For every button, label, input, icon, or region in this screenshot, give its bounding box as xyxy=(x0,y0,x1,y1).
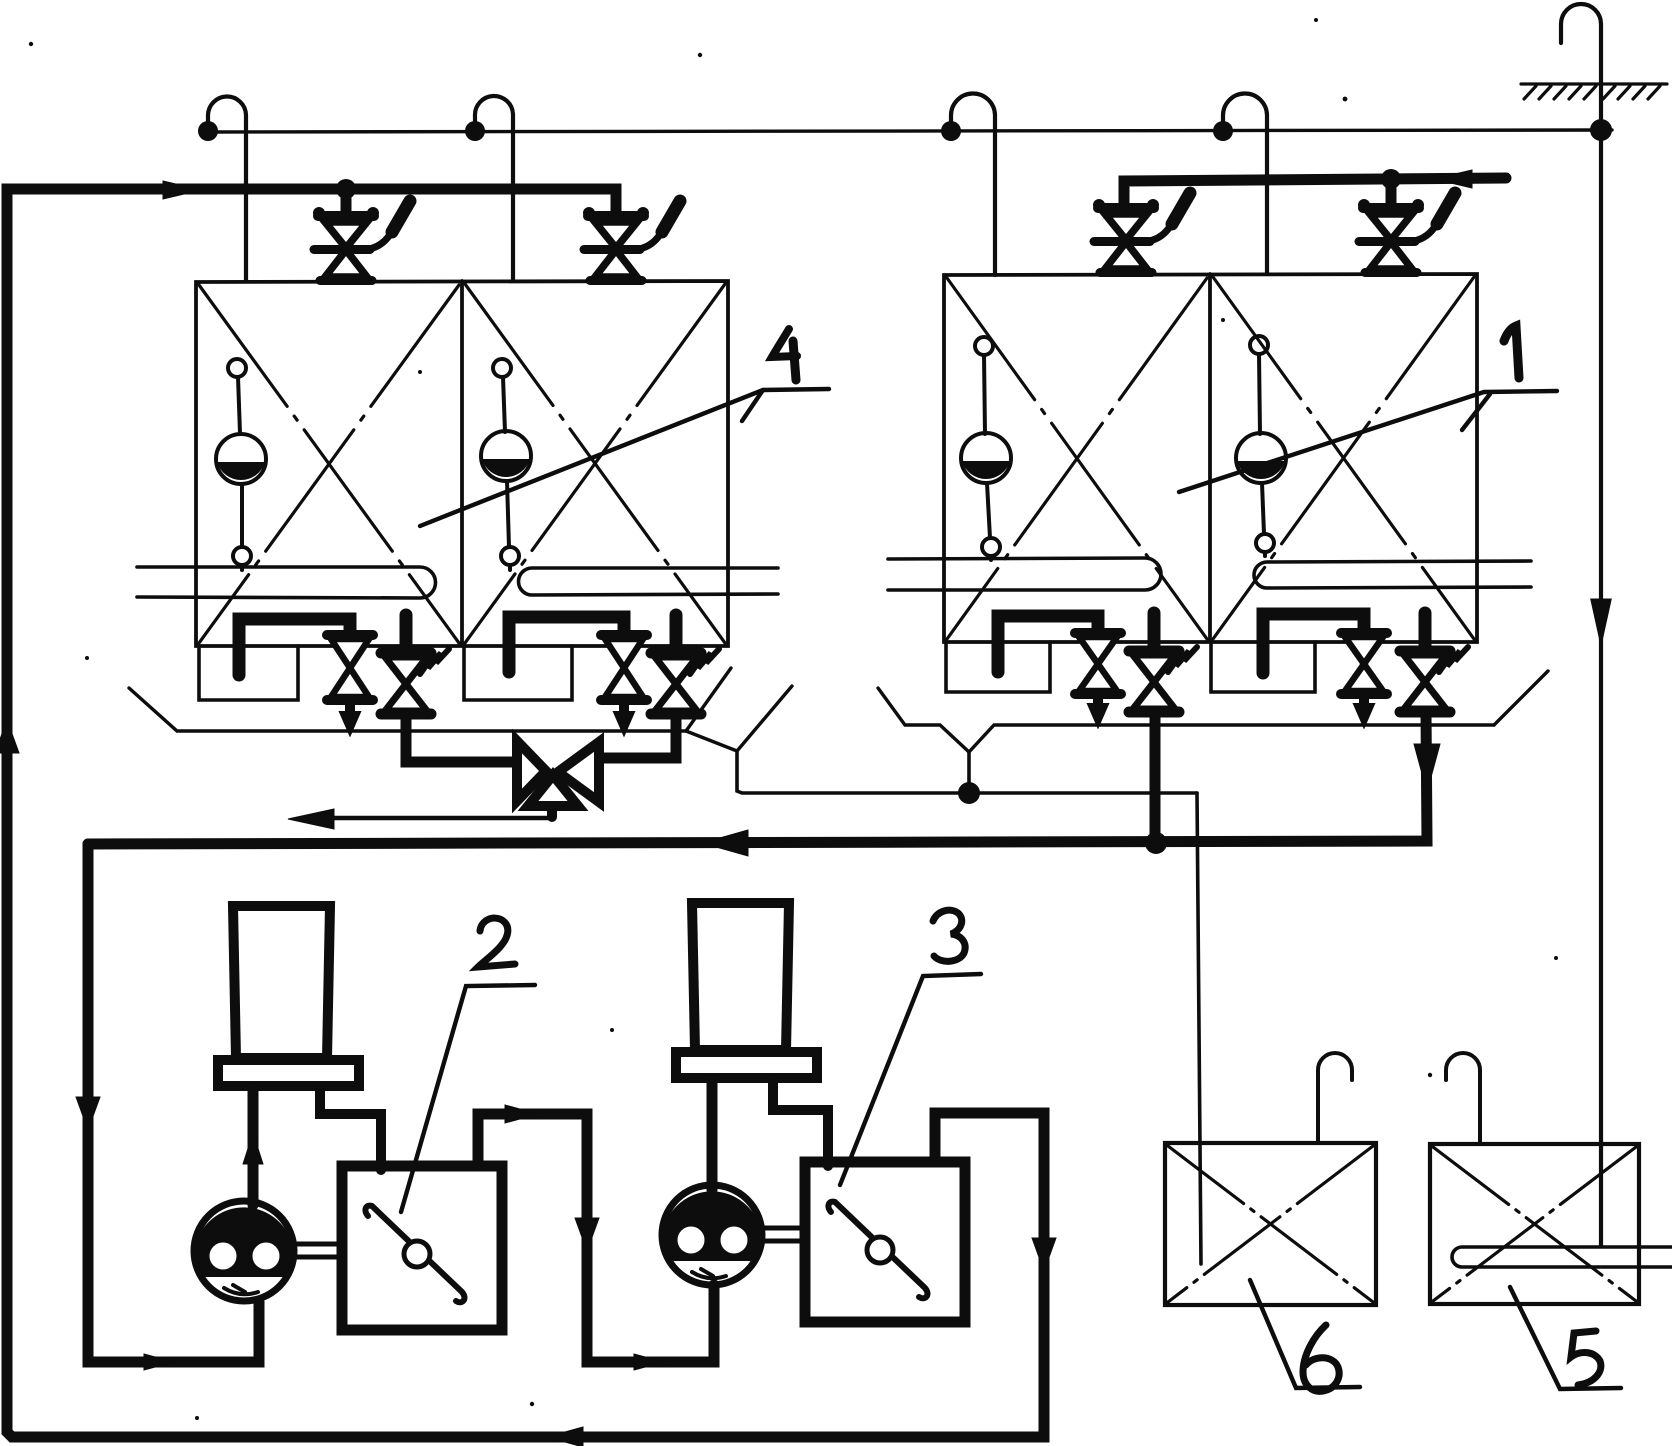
drain line down to box 6 xyxy=(1197,793,1201,1264)
sump under tank 4a xyxy=(199,646,298,700)
top valve V3 xyxy=(1093,193,1190,273)
junction dot valve V1 stem xyxy=(336,179,356,199)
arrow down on suction downcomer xyxy=(76,1097,100,1130)
label 2 numeral xyxy=(478,918,515,967)
suction pipe tank 1a with u-turn xyxy=(888,558,1161,590)
valve V4 stem xyxy=(1386,179,1397,210)
pump 2 shaft pipe xyxy=(248,1088,259,1205)
junction dot vent 2 xyxy=(465,121,485,141)
arrow up on riser xyxy=(0,720,19,753)
filter box 3 xyxy=(805,1162,965,1322)
top valve V1 xyxy=(313,201,410,281)
box 5 suction capsule pipe xyxy=(1452,1247,1672,1267)
arrow down on mast pipe xyxy=(1592,598,1610,641)
tank 1a outlet valve F (thick) xyxy=(1129,613,1179,712)
junction dot vent 3 xyxy=(941,121,961,141)
float gauge tank 4b xyxy=(481,359,531,570)
deck line with hatching xyxy=(1521,84,1667,99)
arrow down on filter 3 outlet xyxy=(1032,1238,1056,1271)
tank 1b outlet valve H (thick) xyxy=(1400,613,1450,712)
pump 3 discharge pipe to filter xyxy=(773,1080,828,1166)
drip tray group 1 xyxy=(878,671,1548,752)
coupling flange pump unit 3 xyxy=(676,1052,817,1078)
label 5 numeral xyxy=(1571,1331,1601,1385)
bottom supply line to riser xyxy=(7,194,1044,1437)
float gauge tank 1a xyxy=(961,337,1011,560)
junction dot valve F pipe on return xyxy=(1145,832,1167,854)
mast vent pipe top right xyxy=(1561,4,1601,129)
valve D outlet pipe to three-way valve xyxy=(604,714,676,758)
label 6 numeral xyxy=(1303,1325,1339,1391)
vent header pipe xyxy=(206,130,1612,132)
arrow right on filter 2 outlet xyxy=(505,1105,538,1123)
three-way valve xyxy=(517,741,599,806)
tank 4b diagonal chain lines xyxy=(465,284,725,643)
label 6 underline and leader xyxy=(1250,1280,1360,1388)
suction J-pipe tank 4b xyxy=(509,617,624,672)
arrow down on filter 2 outlet xyxy=(575,1218,599,1251)
drip tray group 4 xyxy=(129,668,792,751)
filter box 2 xyxy=(342,1166,502,1330)
pump 3 to filter 3 pipe xyxy=(762,1228,805,1241)
arrow left on bottom supply line xyxy=(547,1427,583,1446)
coupling flange pump unit 2 xyxy=(218,1060,359,1086)
tank group 4 outline xyxy=(196,281,728,646)
suction J-pipe tank 1b xyxy=(1263,614,1364,673)
label 1 underline and leaders xyxy=(1179,391,1557,492)
drip tray group 1 drain stub xyxy=(967,752,971,793)
float gauge tank 4a xyxy=(216,359,266,570)
tank 4b outlet valve D (thick) xyxy=(651,615,701,714)
label 5 underline and leader xyxy=(1510,1287,1621,1389)
tank 1a diagonal chain lines xyxy=(947,278,1207,639)
label 3 numeral xyxy=(933,910,965,961)
arrow right on pump 3 suction run xyxy=(634,1354,664,1370)
tank group 1 outline xyxy=(944,274,1477,642)
drip tray group 4 drain xyxy=(737,751,1197,793)
valve V1 stem xyxy=(341,189,352,218)
three-way valve drain stub xyxy=(547,806,557,817)
junction dot vent 4 xyxy=(1213,121,1233,141)
gear pump 3 xyxy=(662,1185,762,1285)
squiggle handle valve D xyxy=(690,649,719,674)
arrow down on valve H outlet xyxy=(1414,744,1440,792)
box 5 outline xyxy=(1430,1144,1639,1304)
junction dot vent 1 xyxy=(198,121,218,141)
drain valve A tank 4a xyxy=(327,635,373,735)
junction dot drains xyxy=(958,782,980,804)
damper lever filter 3 xyxy=(828,1202,927,1299)
three-way drain line with arrow xyxy=(320,816,553,820)
arrow right on pump 2 suction run xyxy=(144,1354,174,1370)
drain valve E tank 1a xyxy=(1075,633,1121,727)
arrow left on right filling header xyxy=(1434,170,1472,188)
junction dot valve V4 stem xyxy=(1381,169,1401,189)
discharge riser left frame xyxy=(88,844,259,1362)
squiggle handle valve F xyxy=(1168,647,1197,672)
filter 2 outlet pipe xyxy=(478,1114,714,1362)
suction pipe tank 1b with left cap xyxy=(1254,561,1531,588)
suction pipe tank 4b with left cap xyxy=(519,568,779,595)
sump under tank 4b xyxy=(464,646,572,700)
tank 4a diagonal chain lines xyxy=(199,277,1474,643)
arrow left on return line xyxy=(702,830,748,856)
valve B outlet pipe to three-way valve xyxy=(406,714,512,762)
filter 3 outlet pipe xyxy=(935,1113,1044,1432)
filling header right (thick) xyxy=(1124,178,1506,210)
box 6 outline xyxy=(1165,1143,1376,1305)
gooseneck vent 2 xyxy=(475,96,513,280)
tank 4a outlet valve B (thick) xyxy=(381,615,431,714)
suction J-pipe tank 1a xyxy=(998,616,1098,672)
suction J-pipe tank 4a xyxy=(239,619,350,675)
filling header left (thick) xyxy=(7,189,616,216)
pump 2 to filter 2 pipe xyxy=(294,1244,342,1257)
box 5 vent hook xyxy=(1446,1053,1480,1144)
junction dot mast xyxy=(1590,119,1612,141)
arrow up on pump 2 shaft xyxy=(243,1133,263,1164)
squiggle handle valve B xyxy=(420,649,449,674)
top valve V4 xyxy=(1358,193,1455,273)
label 4 underline and leaders xyxy=(420,389,829,526)
tank 1b diagonal chain lines xyxy=(1213,277,1474,639)
suction pipe tank 4a with u-turn xyxy=(137,567,435,598)
drain valve G tank 1b xyxy=(1341,633,1387,727)
box 6 diagonal chain lines xyxy=(1168,1146,1373,1302)
label 1 numeral xyxy=(1504,326,1519,378)
float gauge tank 1b xyxy=(1236,336,1286,556)
gooseneck vent 3 xyxy=(951,93,995,275)
sump under tank 1a xyxy=(946,642,1050,692)
motor cylinder pump unit 3 xyxy=(692,903,789,1050)
top valve V2 xyxy=(583,201,680,281)
sump under tank 1b xyxy=(1211,642,1315,692)
motor cylinder pump unit 2 xyxy=(233,906,330,1058)
box 5 diagonal chain lines xyxy=(1433,1147,1636,1301)
mast pipe down to box 5 xyxy=(1599,129,1603,1246)
gooseneck vent 1 xyxy=(208,97,246,281)
pump 2 discharge pipe to filter xyxy=(320,1088,381,1170)
gooseneck vent 4 xyxy=(1223,94,1267,274)
label 3 underline and leader xyxy=(840,974,981,1185)
label 2 underline and leader xyxy=(401,985,535,1212)
pump 3 shaft pipe xyxy=(707,1080,718,1190)
gear pump 2 xyxy=(194,1201,294,1301)
squiggle handle valve H xyxy=(1439,647,1468,672)
box 6 vent hook xyxy=(1318,1053,1352,1143)
valve H outlet pipe down to return xyxy=(88,712,1427,844)
label 4 numeral xyxy=(772,329,797,357)
arrow right on left filling header xyxy=(163,181,201,199)
damper lever filter 2 xyxy=(365,1206,464,1303)
drain valve C tank 4b xyxy=(601,635,647,735)
valve F outlet pipe down xyxy=(1150,712,1161,843)
